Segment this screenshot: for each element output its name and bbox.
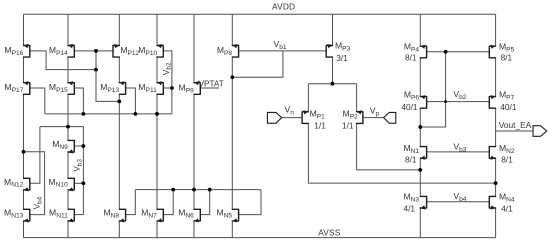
svg-text:8/1: 8/1 <box>405 52 417 62</box>
svg-text:AVSS: AVSS <box>318 228 341 238</box>
svg-text:8/1: 8/1 <box>501 155 513 165</box>
svg-text:8/1: 8/1 <box>405 155 417 165</box>
svg-text:1/1: 1/1 <box>342 120 354 130</box>
svg-text:4/1: 4/1 <box>501 204 513 214</box>
svg-text:VPTAT: VPTAT <box>199 80 224 89</box>
svg-text:40/1: 40/1 <box>401 102 418 112</box>
svg-text:Vout_EA: Vout_EA <box>499 120 532 130</box>
svg-text:4/1: 4/1 <box>403 204 415 214</box>
svg-text:1/1: 1/1 <box>314 120 326 130</box>
svg-text:3/1: 3/1 <box>336 53 348 63</box>
svg-text:40/1: 40/1 <box>500 102 517 112</box>
svg-text:8/1: 8/1 <box>501 52 513 62</box>
svg-text:AVDD: AVDD <box>272 1 295 11</box>
